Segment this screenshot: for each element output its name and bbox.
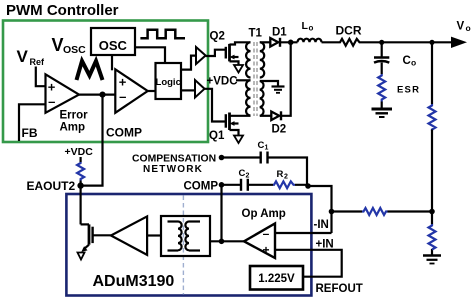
svg-text:+: + — [119, 75, 127, 90]
svg-text:OSC: OSC — [63, 44, 86, 56]
svg-text:Q1: Q1 — [209, 130, 225, 142]
svg-text:-IN: -IN — [314, 219, 329, 231]
svg-text:2: 2 — [246, 173, 250, 180]
svg-text:+VDC: +VDC — [207, 76, 238, 88]
svg-text:1.225V: 1.225V — [258, 273, 295, 285]
svg-text:PWM Controller: PWM Controller — [6, 2, 119, 19]
svg-text:COMPENSATION: COMPENSATION — [132, 154, 216, 165]
svg-text:T1: T1 — [249, 28, 263, 40]
svg-text:+: + — [48, 80, 56, 95]
svg-text:ADuM3190: ADuM3190 — [93, 273, 175, 290]
svg-text:2: 2 — [284, 174, 288, 181]
svg-text:C: C — [239, 168, 246, 179]
svg-text:OSC: OSC — [99, 38, 128, 53]
svg-text:ESR: ESR — [397, 85, 420, 96]
svg-text:COMP: COMP — [106, 126, 142, 140]
svg-text:–: – — [119, 89, 126, 104]
svg-text:C: C — [403, 55, 411, 67]
svg-text:–: – — [48, 94, 55, 109]
svg-text:FB: FB — [22, 126, 38, 140]
svg-text:L: L — [302, 20, 309, 32]
svg-text:o: o — [411, 58, 416, 68]
svg-text:Logic: Logic — [156, 77, 181, 88]
svg-text:Q2: Q2 — [210, 31, 225, 43]
svg-text:REFOUT: REFOUT — [316, 283, 363, 295]
svg-text:Op Amp: Op Amp — [242, 208, 286, 220]
svg-text:o: o — [309, 24, 314, 33]
svg-text:+: + — [262, 243, 269, 257]
svg-text:Ref: Ref — [30, 57, 46, 67]
svg-text:EAOUT2: EAOUT2 — [27, 179, 76, 193]
svg-text:–: – — [263, 227, 270, 241]
svg-text:+IN: +IN — [316, 239, 334, 251]
svg-text:1: 1 — [265, 145, 269, 152]
svg-text:Amp: Amp — [60, 122, 86, 134]
svg-text:Error: Error — [60, 110, 89, 122]
svg-text:o: o — [466, 23, 471, 33]
svg-text:D1: D1 — [272, 27, 287, 39]
svg-text:C: C — [258, 140, 265, 151]
svg-text:NETWORK: NETWORK — [143, 164, 203, 175]
svg-text:DCR: DCR — [336, 24, 362, 38]
svg-text:V: V — [52, 35, 64, 55]
svg-text:COMP: COMP — [184, 181, 219, 193]
svg-text:+VDC: +VDC — [65, 146, 94, 158]
svg-text:D2: D2 — [272, 124, 287, 136]
svg-text:V: V — [17, 47, 29, 66]
svg-text:R: R — [277, 169, 284, 180]
svg-text:V: V — [457, 21, 465, 33]
